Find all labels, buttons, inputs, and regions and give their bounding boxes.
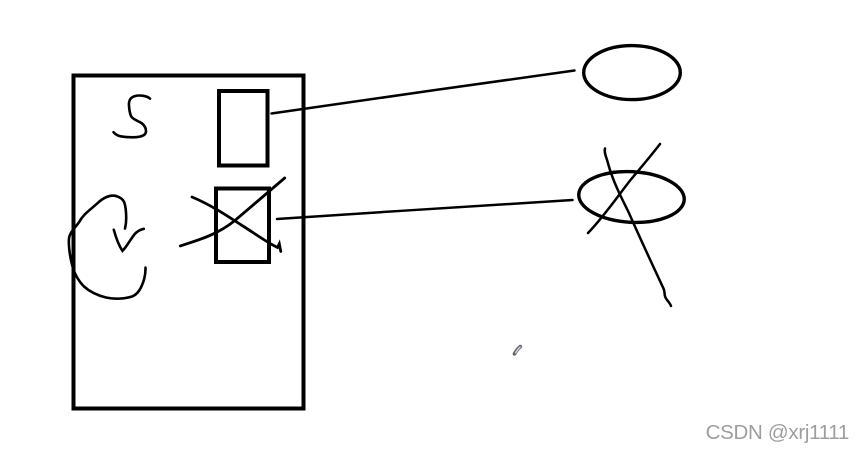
outer box (large rectangle) — [74, 76, 304, 409]
X stroke over lower rectangle (upper-right to lower-left) — [180, 178, 284, 246]
watermark text — [706, 421, 849, 445]
small grey pen mark — [515, 347, 521, 354]
small grey pen mark highlight core — [516, 347, 521, 353]
upper small rectangle — [219, 91, 268, 166]
short X stroke over lower ellipse (top-right to bottom-left) — [588, 144, 660, 233]
connector line from upper rectangle to upper ellipse — [272, 71, 575, 114]
long X stroke over lower ellipse (top to bottom-right, with hook) — [605, 149, 671, 307]
X stroke over lower rectangle (upper-left to lower-right) — [192, 197, 281, 252]
lower small rectangle (crossed out) — [216, 189, 269, 263]
upper ellipse — [584, 46, 681, 100]
circular-arrow doodle (loop) — [69, 196, 146, 299]
circular-arrow doodle (shaft) — [116, 196, 126, 229]
letter S — [114, 96, 151, 138]
connector line from lower rectangle to lower ellipse — [277, 200, 573, 219]
circular-arrow doodle (arrowhead V) — [114, 229, 144, 251]
small grey pen mark dark tip — [513, 353, 516, 356]
lower ellipse (crossed out) — [577, 169, 685, 225]
